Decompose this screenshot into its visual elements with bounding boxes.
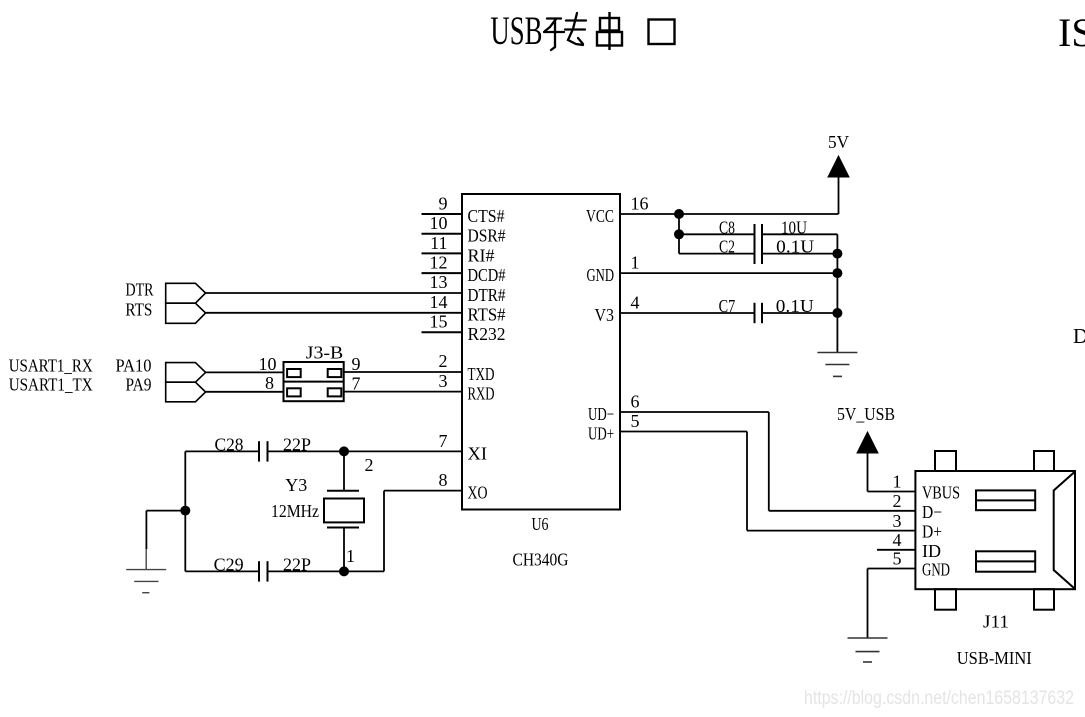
J11 contact bar bottom [976,551,1035,571]
svg-text:1: 1 [346,546,355,566]
wire C2 to ground rail [762,253,837,255]
wire U6 VCC to 5V [620,213,839,215]
svg-text:16: 16 [631,193,649,213]
svg-text:PA9: PA9 [126,375,152,395]
svg-text:PA10: PA10 [116,355,152,375]
wire junction to ground branch [146,510,185,512]
U6 pin 6 UD- [588,391,640,424]
capacitor C7 [755,303,763,323]
U6 pin 16 VCC [586,193,649,226]
wire UD+ to J11 D+ [747,530,915,532]
svg-text:Y3: Y3 [285,475,307,495]
U6 pin 12 DCD# [422,253,506,286]
U6 pin 7 XI [439,431,488,464]
svg-text:9: 9 [439,193,448,213]
wire to C8 [679,233,755,235]
J11 mounting tab bottom-left [935,589,956,610]
wire left rail vertical [184,451,186,571]
svg-text:2: 2 [893,491,902,511]
J11 pin 3 D+ [893,511,943,542]
svg-text:USB: USB [490,8,542,53]
J11 pin 2 D- [893,491,943,522]
connector J3-B body [284,362,344,401]
svg-text:8: 8 [265,373,274,393]
svg-text:VBUS: VBUS [922,483,960,503]
port flag RTS [166,303,206,323]
port flag PA10 [166,363,206,383]
J11 mounting tab top-right [1034,451,1054,471]
J3-B pad pin 7 [328,388,342,396]
J11 contact bar top [976,490,1035,510]
wire to U6 pin 8 XO [384,490,462,492]
svg-text:VCC: VCC [586,206,614,226]
U6 pin 3 RXD [439,371,495,404]
U6 pin 2 TXD [439,351,495,384]
wire left rail to C29 [185,570,259,572]
wire corner up to U6 pin 8 [383,491,385,572]
J11 mounting tab bottom-right [1034,589,1054,610]
svg-text:5V_USB: 5V_USB [837,404,895,424]
node C2 ground junction [832,249,842,259]
IC U6 CH340G body [462,194,620,510]
wire XI node to U6 pin 7 [344,450,462,452]
wire U6 UD- segment [620,411,769,413]
J11 shell bevel [1054,472,1075,589]
svg-text:DTR#: DTR# [468,285,506,305]
svg-text:2: 2 [365,455,374,475]
svg-text:USB-MINI: USB-MINI [957,648,1032,668]
capacitor C29 [259,561,268,581]
wire to C2 [679,253,755,255]
svg-text:DT: DT [1073,324,1085,348]
svg-text:V3: V3 [595,305,615,325]
wire J11 ID stub [877,549,915,551]
wire DTR to pin 13 [206,292,462,294]
U6 pin 5 UD+ [588,411,640,444]
capacitor C28 [259,441,268,461]
svg-text:1: 1 [893,472,902,492]
port flag PA9 [166,382,206,402]
ground (USB) [848,638,888,662]
svg-text:IS: IS [1058,10,1085,55]
wire UD- to J11 D- [769,510,916,512]
svg-text:8: 8 [439,470,448,490]
svg-text:R232: R232 [468,324,506,344]
svg-text:J11: J11 [983,612,1009,632]
wire ground branch vertical [145,511,147,549]
U6 pin 15 R232 [422,312,506,345]
svg-text:USART1_RX: USART1_RX [9,355,93,375]
wire PA9 to J3-B pin 8 [206,391,284,393]
svg-text:UD+: UD+ [588,424,614,444]
svg-text:1: 1 [631,253,640,273]
U6 pin 14 RTS# [430,292,506,325]
svg-text:D+: D+ [922,522,942,542]
wire U6 V3 to C7 [620,312,755,314]
svg-text:12: 12 [430,253,448,273]
svg-text:DTR: DTR [126,280,154,300]
svg-text:10: 10 [430,213,448,233]
J3-B pad pin 10 [287,369,301,377]
node GND junction [832,268,842,278]
connector J11 body [915,471,1075,589]
U6 pin 13 DTR# [430,272,506,305]
svg-text:GND: GND [587,265,615,285]
J11 mounting tab top-left [935,451,956,471]
wire VCC junction down [678,214,680,254]
wire J11 GND stub [868,568,916,570]
svg-text:RI#: RI# [468,245,495,265]
title glyph 口 [649,20,675,45]
svg-text:D−: D− [922,502,942,522]
wire XI node down to crystal [343,451,345,490]
node XI junction [339,446,349,456]
svg-text:10: 10 [259,354,277,374]
svg-text:RTS#: RTS# [468,305,506,325]
svg-text:14: 14 [430,292,448,312]
svg-text:TXD: TXD [468,364,495,384]
capacitor C8 [755,224,763,244]
svg-text:DCD#: DCD# [468,265,506,285]
svg-text:XI: XI [468,443,488,463]
svg-text:XO: XO [468,483,488,503]
J3-B pad pin 9 [328,369,342,377]
wire XO node to corner [344,570,384,572]
svg-text:UD−: UD− [588,404,614,424]
wire crystal to XO node [343,528,345,572]
wire 5V_USB stem [867,453,869,492]
wire PA10 to J3-B pin 10 [206,371,284,373]
J3-B pad pin 8 [287,388,301,396]
J11 pin 1 VBUS [893,472,961,503]
svg-text:7: 7 [439,431,448,451]
wire J3-B pin 9 to U6 TXD [344,371,462,373]
J11 pin 4 ID [893,530,942,561]
svg-text:5: 5 [893,549,902,569]
wire C29 to XO node [268,570,345,572]
U6 pin 1 GND [587,253,640,286]
svg-text:J3-B: J3-B [306,343,344,363]
svg-text:12MHz: 12MHz [271,501,319,521]
wire C7 to ground rail [762,312,837,314]
svg-text:5V: 5V [828,132,849,152]
svg-text:ID: ID [922,541,941,561]
wire 5V stem [838,177,840,214]
U6 pin 9 CTS# [422,193,505,226]
wire C8 to ground rail [762,233,837,235]
power symbol 5V [828,156,849,177]
svg-text:RTS: RTS [125,300,152,320]
svg-text:https://blog.csdn.net/chen1658: https://blog.csdn.net/chen1658137632 [804,688,1074,709]
wire UD- vertical [768,412,770,511]
J11 pin 5 GND [893,549,951,580]
U6 pin 8 XO [439,470,488,503]
wire C28 to XI node [268,450,345,452]
svg-text:U6: U6 [532,514,549,534]
wire U6 GND to ground rail [620,272,837,274]
U6 pin 10 DSR# [422,213,506,246]
wire RTS to pin 14 [206,312,462,314]
svg-text:11: 11 [430,233,447,253]
svg-text:4: 4 [893,530,902,550]
wire U6 UD+ segment [620,431,747,433]
node C7 ground junction [832,308,842,318]
wire UD+ vertical [746,432,748,531]
crystal Y3 [324,491,364,528]
svg-text:DSR#: DSR# [468,226,506,246]
svg-text:3: 3 [893,511,902,531]
node VCC junction [674,209,684,219]
ground (decoupling rail) [817,353,857,377]
wire ground rail vertical [836,234,838,352]
power symbol 5V_USB [857,432,878,453]
svg-text:USART1_TX: USART1_TX [9,375,93,395]
U6 pin 4 V3 [595,292,640,325]
wire J11 GND down [867,569,869,639]
port flag DTR [166,283,206,303]
svg-text:CTS#: CTS# [468,206,505,226]
svg-text:6: 6 [631,391,640,411]
U6 pin 11 RI# [422,233,495,266]
svg-text:5: 5 [631,411,640,431]
wire J3-B pin 7 to U6 RXD [344,391,462,393]
title glyph 转 [544,13,586,50]
svg-text:3: 3 [439,371,448,391]
svg-text:13: 13 [430,272,448,292]
capacitor C2 [755,244,763,264]
svg-text:RXD: RXD [468,383,495,403]
title glyph 串 [597,12,622,50]
wire 5V_USB to J11 VBUS [868,491,916,493]
svg-text:GND: GND [922,560,950,580]
node left rail junction [180,506,190,516]
node XO junction [339,566,349,576]
node C8 junction [674,229,684,239]
svg-text:4: 4 [631,292,640,312]
svg-text:15: 15 [430,312,448,332]
svg-text:9: 9 [352,354,361,374]
ground (crystal) [126,549,166,593]
svg-text:2: 2 [439,351,448,371]
svg-text:7: 7 [352,373,361,393]
wire left rail to C28 [185,450,259,452]
svg-text:CH340G: CH340G [513,550,569,570]
